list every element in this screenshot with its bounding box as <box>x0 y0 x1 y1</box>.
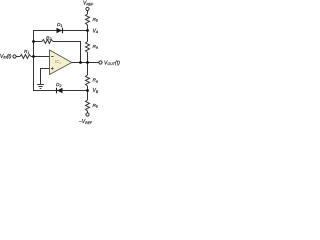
wire R2 branch left <box>34 41 43 43</box>
resistor Rb bottom <box>86 100 90 111</box>
wire output line to Ra bottom <box>87 63 89 76</box>
background <box>0 0 120 126</box>
wire R1 to op-amp inverting input <box>31 56 50 58</box>
wire VB to Rb bottom <box>87 91 89 101</box>
wire D2 branch <box>34 90 88 92</box>
terminal -Vref <box>86 113 89 116</box>
wire D1 branch <box>34 30 88 32</box>
wire op-amp output <box>72 62 99 64</box>
diode D2 <box>57 88 63 94</box>
wire Vref to Rb <box>87 11 89 14</box>
wire input to R1 <box>16 56 20 58</box>
diode D1 <box>57 28 63 34</box>
wire Ra bottom to node VB <box>87 86 89 91</box>
Vref terminal top <box>86 7 89 10</box>
resistor Rb top <box>86 14 90 25</box>
op-amp IC1 <box>50 50 72 75</box>
svg-text:Ra: Ra <box>93 78 98 84</box>
svg-text:D1: D1 <box>57 22 62 28</box>
resistor Ra bottom <box>86 75 90 86</box>
svg-text:IC1: IC1 <box>55 59 61 65</box>
junction node dots <box>32 40 35 43</box>
input terminal Vin <box>13 55 16 58</box>
svg-text:VOUT(t): VOUT(t) <box>104 60 120 66</box>
svg-text:R1: R1 <box>24 49 29 55</box>
resistor R1 <box>20 55 31 59</box>
svg-text:Rb: Rb <box>93 103 98 109</box>
wire Rb bottom to -Vref terminal <box>87 111 89 113</box>
svg-text:VREF: VREF <box>83 1 94 7</box>
svg-text:VIN(t): VIN(t) <box>0 54 12 60</box>
resistor Ra top <box>86 42 90 53</box>
svg-text:VB: VB <box>93 88 99 94</box>
wire VA to Ra <box>87 30 89 42</box>
ground <box>37 85 44 89</box>
wire non-inverting input to ground <box>41 69 50 85</box>
resistor R2 <box>42 40 53 44</box>
wire Ra to output line <box>87 53 89 63</box>
svg-text:D2: D2 <box>56 82 61 88</box>
wire left vertical bus <box>33 30 35 91</box>
svg-text:VA: VA <box>93 28 99 34</box>
svg-text:Ra: Ra <box>93 44 98 50</box>
wire R2 to output node <box>53 42 81 63</box>
svg-text:–VREF: –VREF <box>78 119 93 125</box>
svg-text:R2: R2 <box>46 35 51 41</box>
wire Rb to node VA <box>87 25 89 30</box>
output terminal Vout <box>99 61 102 64</box>
svg-text:Rb: Rb <box>93 17 98 23</box>
